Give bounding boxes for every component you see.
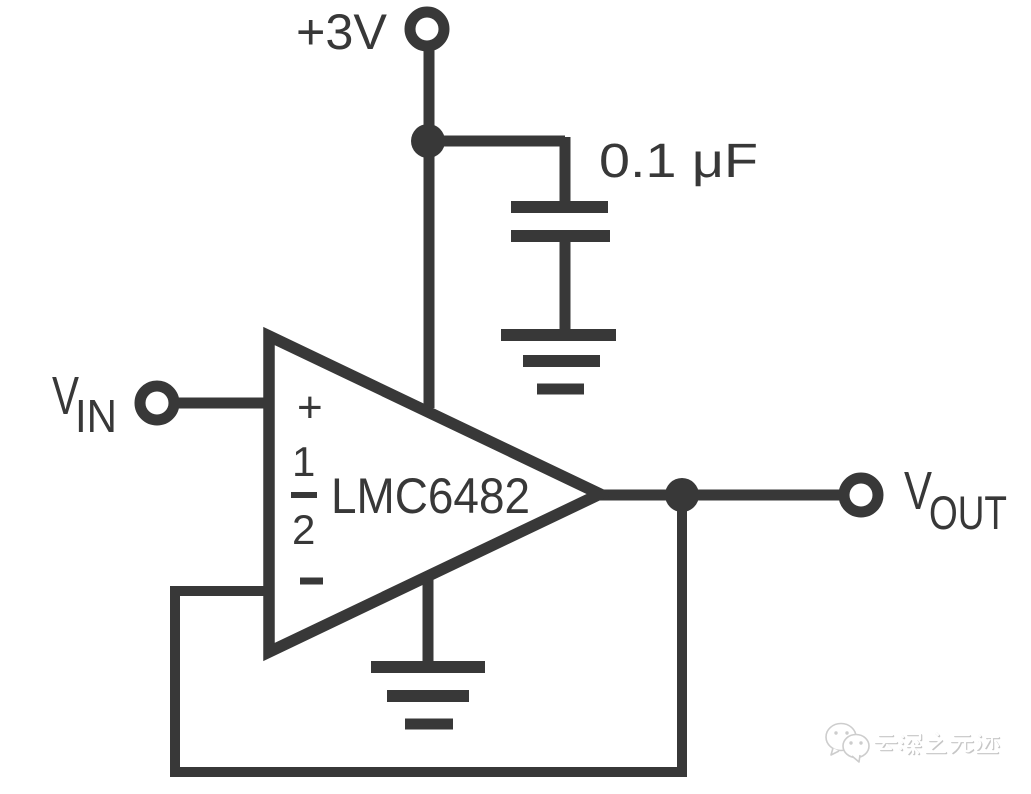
- svg-text:V: V: [904, 461, 932, 521]
- svg-text:OUT: OUT: [929, 486, 1007, 539]
- svg-text:IN: IN: [75, 390, 117, 442]
- svg-text:0.1 μF: 0.1 μF: [599, 135, 758, 188]
- svg-text:+: +: [297, 383, 323, 432]
- svg-text:1: 1: [292, 438, 315, 485]
- svg-text:LMC6482: LMC6482: [331, 468, 530, 524]
- svg-text:2: 2: [292, 506, 315, 553]
- svg-text:+3V: +3V: [296, 4, 388, 60]
